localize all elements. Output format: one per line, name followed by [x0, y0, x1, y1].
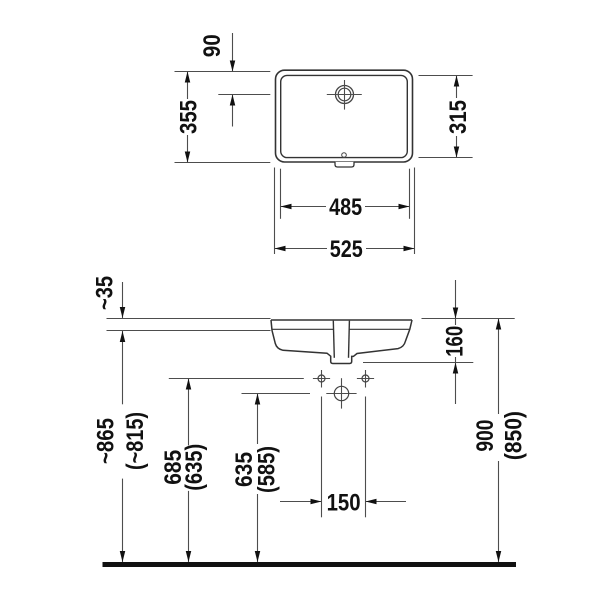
svg-text:635(585): 635(585)	[231, 446, 281, 493]
svg-text:525: 525	[330, 236, 363, 263]
svg-text:150: 150	[327, 490, 361, 517]
svg-text:160: 160	[442, 326, 469, 357]
svg-text:315: 315	[445, 100, 472, 134]
svg-text:~35: ~35	[92, 276, 119, 310]
svg-text:355: 355	[175, 100, 202, 134]
svg-text:90: 90	[199, 34, 226, 57]
svg-text:485: 485	[329, 194, 362, 221]
svg-text:685(635): 685(635)	[160, 444, 208, 491]
